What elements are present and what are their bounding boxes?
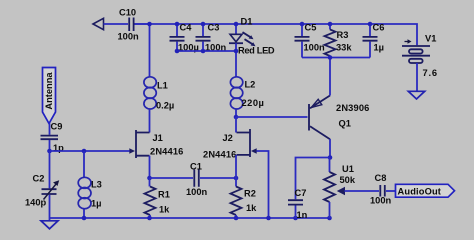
AudioOut port flag	[396, 184, 455, 197]
svg-text:100n: 100n	[118, 31, 140, 41]
svg-text:7.6: 7.6	[423, 68, 438, 78]
inductor L2	[230, 77, 264, 109]
resistor R1	[145, 178, 171, 218]
svg-text:50k: 50k	[340, 175, 356, 185]
node C1 right	[234, 176, 239, 181]
antenna port flag	[43, 68, 56, 124]
svg-text:L3: L3	[91, 180, 102, 190]
node top rail C6	[368, 22, 373, 27]
capacitor C5	[295, 22, 326, 57]
inductor L3	[78, 177, 102, 208]
wire C9 to tank node	[49, 140, 51, 151]
svg-text:1k: 1k	[246, 203, 257, 213]
svg-text:AudioOut: AudioOut	[398, 187, 442, 197]
svg-text:V1: V1	[425, 34, 436, 44]
svg-text:D1: D1	[241, 17, 253, 27]
svg-text:1n: 1n	[297, 210, 308, 220]
node top rail C3	[201, 22, 206, 27]
svg-text:2N4416: 2N4416	[150, 147, 183, 157]
svg-text:C2: C2	[33, 174, 45, 184]
svg-text:Red LED: Red LED	[238, 45, 275, 55]
capacitor C8	[370, 173, 392, 206]
wire tank row to J1 gate	[50, 150, 130, 152]
wire Q1 collector down	[329, 139, 331, 158]
svg-text:C4: C4	[180, 22, 193, 32]
LED D1	[229, 17, 275, 56]
svg-text:Antenna: Antenna	[44, 72, 54, 110]
svg-text:R2: R2	[244, 188, 256, 198]
wire L2 to node	[235, 110, 237, 117]
battery V1	[402, 34, 438, 79]
node top rail C4	[175, 22, 180, 27]
node cathode D1	[234, 49, 239, 54]
svg-text:100n: 100n	[186, 187, 208, 197]
ground left	[41, 218, 58, 229]
svg-text:J1: J1	[153, 133, 163, 143]
transistor Q1	[309, 96, 369, 140]
wire cathode row C4 C3 D1	[177, 50, 236, 52]
svg-text:L2: L2	[245, 80, 256, 90]
wire base row to Q1	[236, 116, 308, 118]
svg-text:100n: 100n	[304, 42, 326, 52]
wire tank node down to C2	[49, 151, 51, 188]
svg-text:C5: C5	[305, 22, 317, 32]
resistor R3	[325, 24, 353, 58]
wire C10 to left column	[135, 24, 150, 133]
node tank left	[47, 149, 52, 154]
wire emitter row	[302, 57, 370, 59]
svg-text:Q1: Q1	[339, 119, 351, 129]
svg-text:C3: C3	[208, 22, 220, 32]
node emitter	[328, 55, 333, 60]
wire battery to ground	[416, 63, 418, 91]
svg-text:33k: 33k	[336, 42, 352, 52]
capacitor C10	[118, 7, 140, 41]
svg-text:C9: C9	[51, 122, 63, 132]
wire C8 to AudioOut	[386, 190, 396, 192]
node J1 source	[147, 176, 152, 181]
wire ground rail	[50, 217, 331, 219]
node top rail D1	[234, 22, 239, 27]
svg-text:C10: C10	[119, 7, 136, 17]
capacitor C9	[41, 122, 65, 154]
wire antenna to C9	[49, 124, 51, 135]
wire D1 to L2	[235, 51, 237, 77]
jfet J1	[129, 130, 183, 158]
wire arrow to C10	[104, 23, 129, 25]
node top rail C5	[300, 22, 305, 27]
wire J2 gate to ground	[257, 151, 269, 218]
svg-text:1k: 1k	[159, 204, 170, 214]
wire J1 source down	[149, 156, 151, 178]
svg-text:C7: C7	[295, 188, 307, 198]
node cathode C3	[201, 49, 206, 54]
svg-text:C1: C1	[190, 161, 202, 171]
svg-text:1µ: 1µ	[374, 42, 385, 52]
svg-text:C8: C8	[375, 173, 387, 183]
variable capacitor C2	[25, 174, 59, 208]
node L3 top	[82, 149, 87, 154]
node rail L3	[82, 216, 87, 221]
wire C1 to J2 source column	[200, 177, 236, 179]
node rail U1	[327, 216, 332, 221]
wire Q1 emitter up	[329, 58, 331, 96]
wire wiper to C8	[345, 190, 380, 192]
wire node down to J2 drain	[235, 117, 237, 133]
svg-text:2N4416: 2N4416	[203, 150, 236, 160]
node rail J2 gate	[266, 216, 271, 221]
capacitor C4	[170, 22, 199, 52]
wire L3 column	[83, 151, 85, 218]
svg-text:J2: J2	[223, 133, 233, 143]
potentiometer U1	[324, 158, 356, 219]
inductor L1	[144, 77, 174, 111]
jfet J2	[203, 129, 257, 160]
wire C2 to rail	[49, 195, 51, 218]
wire top rail	[135, 24, 418, 45]
antenna input arrow	[93, 18, 104, 29]
ground battery	[408, 91, 424, 99]
node top rail R3	[328, 22, 333, 27]
node top rail C10	[147, 22, 152, 27]
wire J2 source down	[235, 155, 237, 178]
node cathode C4	[175, 49, 180, 54]
capacitor C6	[363, 22, 385, 57]
svg-text:140p: 140p	[25, 198, 47, 208]
resistor R2	[231, 178, 258, 218]
capacitor C3	[196, 22, 227, 52]
capacitor C1	[186, 161, 208, 197]
svg-text:220µ: 220µ	[242, 98, 265, 108]
capacitor C7	[288, 188, 308, 220]
node rail R2	[234, 216, 239, 221]
wire C1 row	[150, 177, 194, 179]
node rail R1	[147, 216, 152, 221]
svg-text:U1: U1	[342, 164, 354, 174]
svg-text:2N3906: 2N3906	[336, 103, 369, 113]
svg-text:R1: R1	[158, 189, 170, 199]
svg-text:L1: L1	[157, 81, 168, 91]
wire collector to C7	[296, 158, 331, 200]
svg-text:100n: 100n	[370, 195, 392, 205]
svg-text:R3: R3	[337, 30, 349, 40]
node J2 drain	[234, 115, 239, 120]
node collector	[328, 155, 333, 160]
svg-text:1µ: 1µ	[91, 199, 102, 209]
svg-text:C6: C6	[373, 22, 385, 32]
node rail C7	[293, 216, 298, 221]
svg-text:0.2µ: 0.2µ	[156, 101, 174, 111]
